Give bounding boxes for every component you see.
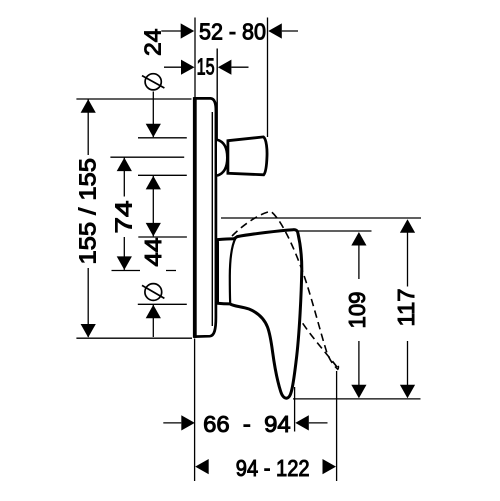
- dimension 15 leader right: [231, 66, 248, 68]
- dimension 117 arrow up: [400, 219, 415, 233]
- diameter symbol for 24: [142, 74, 164, 90]
- extension line 52-80 left: [194, 18, 196, 98]
- svg-text:15: 15: [197, 54, 215, 80]
- dimension text 74: [111, 200, 137, 233]
- dimension 109 arrow down: [351, 385, 366, 399]
- tick line diameter 24 bottom: [138, 174, 187, 176]
- dimension 15 arrow left: [181, 60, 195, 75]
- dimension text 155 / 155: [74, 158, 100, 265]
- dimension text 109: [344, 292, 370, 329]
- dimension text 66 - 94: [203, 411, 291, 437]
- dimension text 52 - 80: [199, 19, 266, 45]
- dimension text 15: [197, 54, 215, 80]
- dimension 155/155 line lower: [87, 268, 89, 337]
- dimension 74 arrow up: [117, 158, 132, 172]
- dimension arrow diameter 24 down: [146, 124, 161, 138]
- dimension 109 line lower: [358, 341, 360, 386]
- dashed lever alternate position: [232, 211, 338, 369]
- tick line diameter 24 top: [138, 137, 187, 139]
- dimension 74 arrow down: [117, 256, 132, 270]
- svg-text:52 - 80: 52 - 80: [199, 19, 266, 45]
- reference line 109 top: [298, 230, 372, 232]
- dimension 117 line lower: [407, 341, 409, 386]
- knob neck arc: [217, 140, 227, 176]
- dimension 155/155 arrow up: [81, 99, 96, 113]
- svg-text:74: 74: [111, 200, 137, 233]
- extension line plate bottom: [76, 337, 192, 339]
- dimension 109 arrow up: [351, 232, 366, 246]
- extension line 52-80 right: [267, 18, 269, 138]
- dimension line diameter 44 lower segment: [152, 305, 154, 337]
- dimension 117 arrow down: [400, 385, 415, 399]
- dimension 117 line upper: [407, 233, 409, 287]
- baseline bottom right: [293, 398, 421, 400]
- dimension 66-94 arrow left: [181, 415, 195, 430]
- temperature knob cone: [228, 137, 267, 175]
- dimension 109 line upper: [358, 245, 360, 279]
- extension line plate top: [76, 98, 191, 100]
- dimension 74 line upper: [123, 158, 125, 197]
- escutcheon plate inner front edge line: [211, 112, 213, 326]
- svg-text:109: 109: [344, 292, 370, 329]
- dimension text 44: [140, 237, 166, 266]
- dimension text 94 - 122: [236, 455, 310, 481]
- svg-text:44: 44: [140, 237, 166, 266]
- dimension text 24: [140, 28, 166, 56]
- dimension line between diameter 24 and 44: [152, 176, 154, 237]
- tick line diameter 44 bottom: [138, 303, 187, 305]
- dimension arrow diameter 44 down: [146, 223, 161, 237]
- dimension text 117: [393, 289, 419, 327]
- tick line 74 top: [110, 156, 184, 158]
- dimension arrow diameter 24 up: [146, 176, 161, 190]
- lever handle crease line: [230, 238, 236, 304]
- dimension 94-122 arrow right: [323, 459, 337, 474]
- dimension 52-80 leader right: [282, 30, 298, 32]
- dimension 15 arrow right: [218, 60, 232, 75]
- tick line 74 bottom: [112, 270, 177, 272]
- dimension 52-80 leader left: [161, 30, 181, 32]
- dimension 155/155 line upper: [87, 100, 89, 156]
- dimension 15 leader left: [164, 66, 181, 68]
- extension line dashed tip: [336, 371, 338, 481]
- escutcheon plate outline: [195, 98, 216, 336]
- lever handle body: [218, 230, 302, 399]
- reference line 117 top: [221, 217, 421, 219]
- tick line 15 right: [216, 49, 218, 140]
- dimension 66-94 arrow right: [295, 415, 309, 430]
- escutcheon plate left (wall) edge: [193, 97, 197, 337]
- svg-text:66 - 94: 66 - 94: [203, 411, 291, 437]
- diameter symbol for 44: [142, 284, 164, 301]
- dimension 66-94 leader right: [309, 422, 328, 424]
- svg-text:155 / 155: 155 / 155: [74, 158, 100, 265]
- dimension 52-80 arrow left: [181, 23, 195, 38]
- svg-text:94 - 122: 94 - 122: [236, 455, 310, 481]
- dimension line diameter column upper segment: [152, 92, 154, 138]
- dimension 155/155 arrow down: [81, 324, 96, 338]
- tick line diameter 44 top: [138, 236, 187, 238]
- dimension arrow diameter 44 up: [146, 305, 161, 319]
- svg-text:117: 117: [393, 289, 419, 327]
- dimension 52-80 arrow right: [268, 23, 282, 38]
- dimension 66-94 leader left: [163, 422, 181, 424]
- dimension 94-122 arrow left: [195, 459, 209, 474]
- extension line bottom left: [194, 339, 196, 482]
- svg-text:24: 24: [140, 28, 166, 56]
- dimension 74 line lower: [123, 237, 125, 270]
- extension line handle tip: [294, 387, 296, 432]
